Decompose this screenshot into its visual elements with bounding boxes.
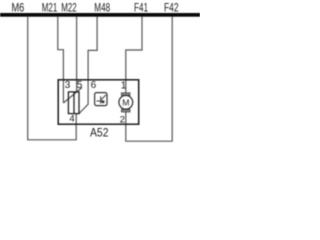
svg-text:5: 5 [77,80,83,91]
svg-text:M22: M22 [61,0,77,14]
svg-text:M48: M48 [94,0,110,14]
svg-text:F42: F42 [164,0,179,14]
svg-text:A52: A52 [90,126,109,140]
svg-text:4: 4 [69,113,74,124]
svg-text:6: 6 [91,80,97,91]
svg-text:F41: F41 [134,0,148,14]
svg-text:3: 3 [65,80,71,91]
svg-text:M6: M6 [12,0,25,14]
svg-text:M21: M21 [42,0,58,14]
svg-text:M: M [122,97,129,107]
svg-text:2: 2 [120,114,125,125]
svg-text:1: 1 [121,80,127,91]
